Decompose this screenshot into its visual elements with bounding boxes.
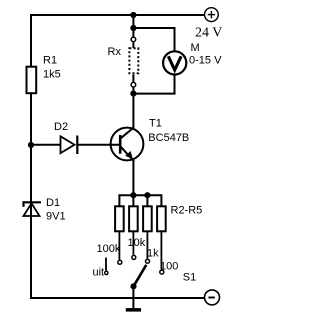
terminal plus 24V: [205, 8, 219, 22]
svg-text:uit: uit: [93, 267, 105, 279]
resistor R5: [157, 206, 166, 231]
svg-text:100k: 100k: [97, 243, 121, 255]
svg-text:Rx: Rx: [108, 46, 122, 58]
wire to Rx top terminal: [132, 28, 134, 37]
wire bottom rail: [30, 297, 204, 299]
wire meter branch top: [133, 28, 174, 51]
wire from top rail to meter branch: [132, 15, 134, 28]
svg-text:R1: R1: [43, 55, 57, 67]
wire R4 contact lead: [146, 232, 148, 259]
meter V symbol: [168, 56, 181, 70]
wire R3 contact lead: [132, 232, 134, 255]
terminal minus: [205, 290, 220, 305]
resistor Rx (dashed box): [129, 48, 138, 73]
diode D1 zener: [23, 201, 42, 216]
resistor R2: [115, 206, 124, 231]
wire Rx bottom lead: [132, 75, 134, 83]
switch S1 lever: [134, 265, 147, 287]
wire base from rail to D2: [31, 144, 61, 146]
node junction top: [130, 12, 136, 18]
svg-text:M: M: [191, 42, 200, 54]
switch S1 pivot: [130, 283, 136, 289]
ground: [126, 298, 141, 312]
svg-text:BC547B: BC547B: [148, 132, 189, 144]
wire resistor bank bus: [119, 195, 161, 206]
contact circle 100k: [118, 260, 122, 264]
svg-text:R2-R5: R2-R5: [171, 205, 203, 217]
svg-text:0-15 V: 0-15 V: [189, 55, 222, 67]
wire R5 contact lead: [160, 232, 162, 269]
meter M body: [163, 51, 186, 74]
wire pivot to bottom rail: [132, 286, 134, 298]
resistor R4: [143, 206, 152, 231]
diode D2: [61, 136, 78, 155]
terminal circle Rx bottom: [131, 82, 136, 87]
svg-text:D1: D1: [46, 197, 60, 209]
resistor R1: [27, 67, 37, 94]
svg-text:100: 100: [160, 261, 178, 273]
wire Rx top lead: [132, 42, 134, 48]
svg-text:24 V: 24 V: [195, 26, 222, 41]
svg-text:D2: D2: [54, 121, 68, 133]
node junction bus R4: [144, 192, 150, 198]
node junction Rx bottom: [130, 91, 136, 97]
wire bus stub R3: [132, 195, 134, 206]
contact circle 1k: [146, 259, 150, 263]
svg-text:1k5: 1k5: [43, 69, 61, 81]
transistor T1: [111, 127, 144, 161]
svg-text:1k: 1k: [147, 248, 159, 260]
contact circle 100: [160, 270, 164, 274]
svg-text:9V1: 9V1: [46, 211, 66, 223]
wire D2 to base: [77, 144, 120, 146]
wire meter bottom: [133, 75, 174, 94]
contact circle 10k: [132, 255, 136, 259]
wire uit lead: [105, 258, 107, 271]
node junction D2: [28, 142, 34, 148]
wire top rail: [30, 14, 204, 16]
wire collector: [132, 94, 134, 128]
terminal circle Rx top: [131, 37, 136, 42]
svg-text:10k: 10k: [128, 237, 146, 249]
node junction bus R3: [130, 192, 136, 198]
wire bus stub R4: [146, 195, 148, 206]
wire Rx bottom to node: [132, 87, 134, 95]
resistor R3: [129, 206, 138, 231]
svg-text:T1: T1: [149, 118, 162, 130]
wire emitter: [132, 161, 134, 197]
wire R2 contact lead: [118, 232, 120, 260]
terminal circle uit: [105, 271, 108, 274]
svg-text:S1: S1: [183, 272, 196, 284]
wire left rail: [30, 14, 32, 299]
node junction meter branch: [130, 25, 136, 31]
